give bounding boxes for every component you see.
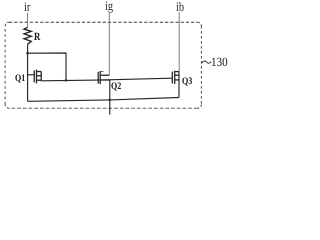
label 130 (211, 56, 228, 70)
wire ib vertical (178, 12, 180, 72)
wire Q2 source to bottom bus (109, 80, 111, 100)
wire node A down to bottom bus corner (27, 44, 29, 101)
label ig (105, 0, 113, 14)
wire gate lead Q1 (28, 74, 35, 76)
transistor Q3 (172, 71, 179, 84)
label R (34, 31, 40, 43)
transistor Q1 (34, 70, 41, 84)
label ib (176, 0, 184, 14)
transistor Q2 (98, 71, 110, 84)
wire bottom bus (28, 98, 179, 102)
wire ig vertical (108, 13, 110, 75)
resistor R (24, 27, 31, 44)
node gate bus junction (65, 79, 68, 82)
label Q3 (182, 76, 192, 87)
label Q1 (15, 73, 25, 84)
label Q2 (111, 81, 121, 92)
wire ir vertical top (27, 13, 29, 28)
node bottom bus junction (109, 99, 112, 102)
leader line to 130 (202, 61, 211, 63)
label ir (24, 0, 30, 14)
node A (26, 52, 29, 55)
wire bottom stub (109, 100, 111, 115)
wire gate bus (41, 78, 172, 81)
dashed box 130 (5, 22, 201, 108)
wire node A to gate-bus corner (28, 53, 66, 80)
wire Q3 source to bottom bus (178, 72, 180, 98)
